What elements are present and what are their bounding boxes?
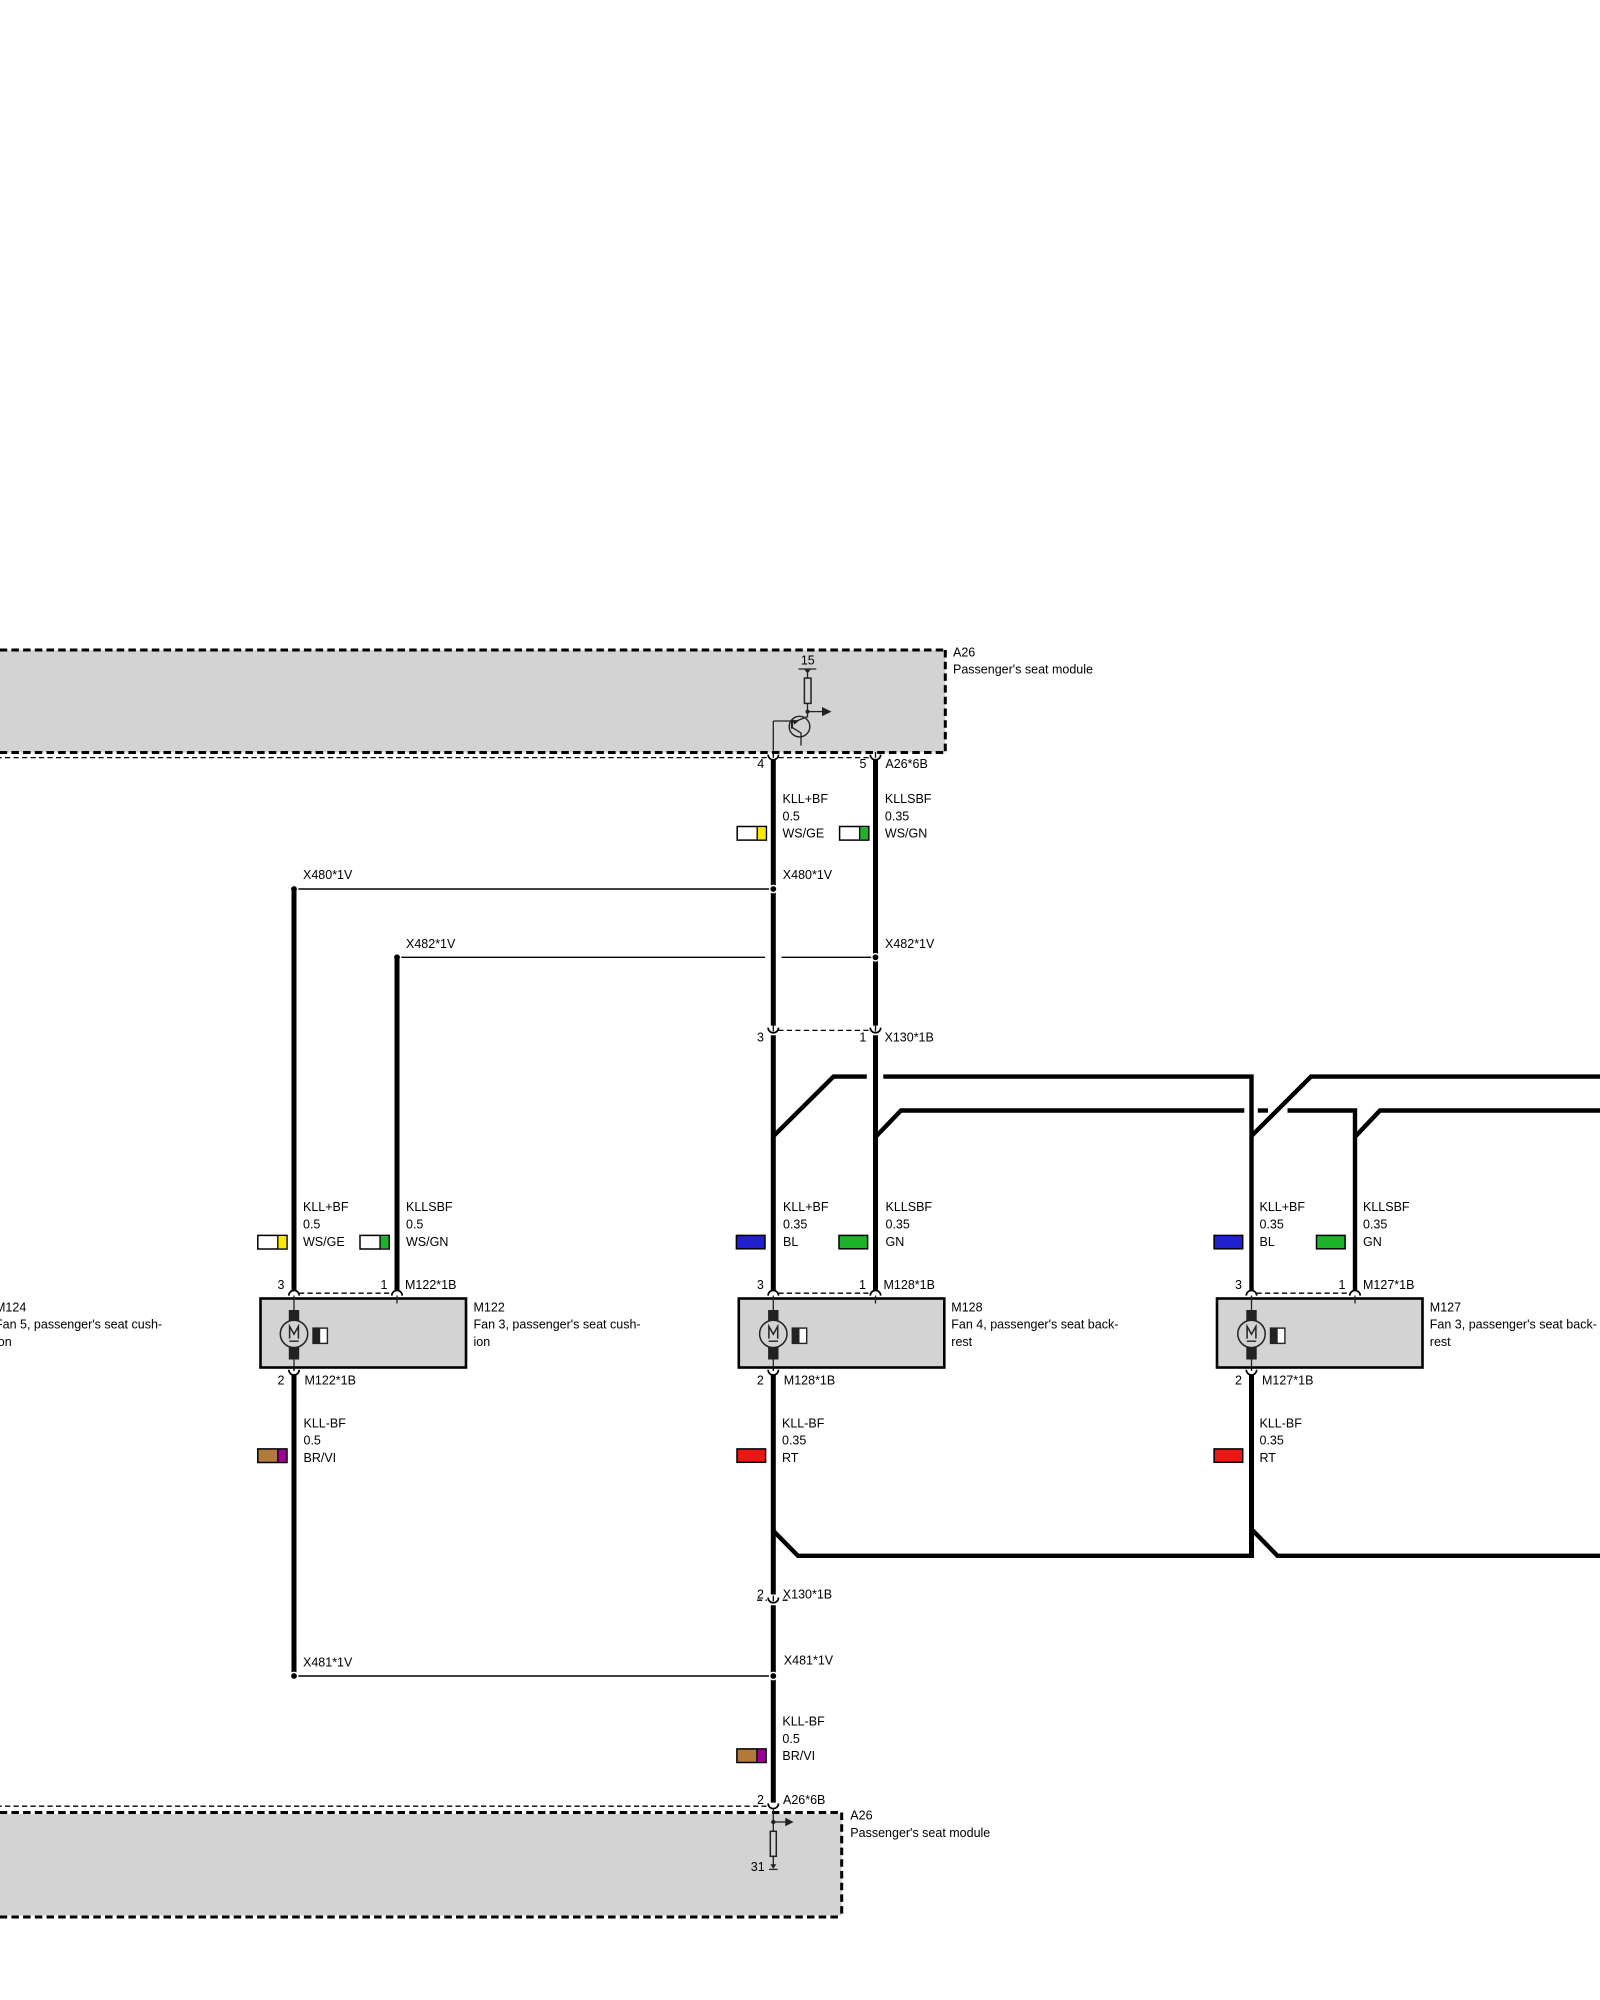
connector X130*1B pin 2 xyxy=(757,1599,790,1601)
pin 2 connector M122*1B xyxy=(293,1368,295,1371)
svg-text:M122: M122 xyxy=(474,1300,505,1314)
svg-text:2: 2 xyxy=(757,1374,764,1388)
svg-text:X480*1V: X480*1V xyxy=(303,868,353,882)
pin 1 stub inside M127 xyxy=(1354,1296,1356,1304)
svg-text:2: 2 xyxy=(757,1793,764,1807)
svg-text:ion: ion xyxy=(0,1335,12,1349)
transistor collector lead down xyxy=(792,728,801,746)
transistor base bar xyxy=(791,719,793,728)
wire resistor to collector junction xyxy=(807,703,809,717)
svg-text:WS/GE: WS/GE xyxy=(303,1235,345,1249)
svg-text:KLL+BF: KLL+BF xyxy=(303,1200,349,1214)
node ground junction xyxy=(771,1820,775,1824)
motor symbol M122 leads xyxy=(293,1296,295,1311)
svg-text:X130*1B: X130*1B xyxy=(783,1588,832,1602)
terminal 31 triangle and bar (ground) xyxy=(770,1864,776,1868)
svg-text:0.35: 0.35 xyxy=(885,809,909,823)
connector X130*1B dashed line xyxy=(778,1029,870,1031)
resistor inside A26 top xyxy=(804,678,811,703)
svg-text:2: 2 xyxy=(278,1374,285,1388)
svg-text:Fan 4, passenger's seat back-: Fan 4, passenger's seat back- xyxy=(951,1318,1118,1332)
svg-text:KLL-BF: KLL-BF xyxy=(304,1416,347,1430)
wire KLL-BF M122 pin2 down to X481 xyxy=(292,1375,297,1676)
svg-text:5: 5 xyxy=(860,757,867,771)
pin 1 connector M127*1B xyxy=(1350,1290,1360,1295)
svg-text:M122*1B: M122*1B xyxy=(405,1278,456,1292)
connector M122*1B dashed line xyxy=(299,1292,392,1294)
svg-text:0.35: 0.35 xyxy=(1260,1434,1284,1448)
pin 3 connector M122*1B xyxy=(289,1290,299,1295)
svg-text:0.35: 0.35 xyxy=(1363,1218,1387,1232)
wire bus KLLSBF horizontal and M127 pin1 corner down xyxy=(1288,1111,1356,1291)
svg-text:KLL+BF: KLL+BF xyxy=(783,1200,829,1214)
wire WS/GN branch down to M122 pin1 xyxy=(395,957,400,1291)
node X482*1V left xyxy=(393,953,402,962)
svg-text:GN: GN xyxy=(1363,1235,1382,1249)
wire pin2 stub into ground resistor xyxy=(772,1809,774,1832)
motor circle M128 xyxy=(760,1320,787,1347)
svg-text:1: 1 xyxy=(859,1031,866,1045)
svg-text:X482*1V: X482*1V xyxy=(885,937,935,951)
wire X482*1V thin link (break at KLL+BF crossing) xyxy=(397,956,765,958)
svg-text:BR/VI: BR/VI xyxy=(782,1749,815,1763)
svg-text:X481*1V: X481*1V xyxy=(784,1654,834,1668)
svg-text:WS/GN: WS/GN xyxy=(885,827,927,841)
svg-text:3: 3 xyxy=(757,1031,764,1045)
pin 1 stub inside M128 xyxy=(875,1296,877,1304)
pin 3 connector M128*1B xyxy=(768,1290,778,1295)
svg-text:M128*1B: M128*1B xyxy=(784,1374,835,1388)
pin 2 connector A26*6B (bottom) xyxy=(768,1803,778,1808)
wire KLL-BF M128 pin2 down to X130 pin2 xyxy=(771,1375,776,1596)
motor brush bottom M128 xyxy=(768,1347,778,1359)
svg-text:31: 31 xyxy=(751,1860,765,1874)
svg-text:M128: M128 xyxy=(951,1300,982,1314)
wire bus KLL+BF horizontal and M127 pin3 corner down xyxy=(883,1077,1251,1291)
svg-text:BL: BL xyxy=(783,1235,798,1249)
pin 1 stub inside M122 xyxy=(396,1296,398,1304)
wire bus KLLSBF crossing dash xyxy=(1258,1108,1268,1112)
svg-text:A26*6B: A26*6B xyxy=(885,757,927,771)
svg-text:KLL-BF: KLL-BF xyxy=(1260,1416,1303,1430)
svg-text:KLLSBF: KLLSBF xyxy=(886,1200,933,1214)
motor symbol M127 leads xyxy=(1251,1296,1253,1311)
svg-text:X482*1V: X482*1V xyxy=(406,937,456,951)
svg-text:0.35: 0.35 xyxy=(783,1218,807,1232)
transistor emitter with arrow xyxy=(792,717,807,723)
wire KLL+BF from pin4 down to X130 pin3 xyxy=(771,760,776,1026)
thermal protector M127 xyxy=(1271,1328,1285,1343)
motor brush top M128 xyxy=(768,1310,778,1321)
wire X130 pin3 down to M128 pin3 xyxy=(771,1035,776,1291)
svg-text:X481*1V: X481*1V xyxy=(303,1655,353,1669)
svg-text:KLL+BF: KLL+BF xyxy=(783,792,829,806)
svg-text:GN: GN xyxy=(886,1235,905,1249)
svg-text:3: 3 xyxy=(278,1278,285,1292)
wire X480*1V thin link xyxy=(294,888,772,890)
colour box WS/GN xyxy=(840,827,869,841)
connector X130*1B pin 3 xyxy=(772,1026,774,1032)
colour box WS/GN (M122) xyxy=(360,1235,389,1249)
wire X481*1V thin link xyxy=(294,1675,772,1677)
svg-text:4: 4 xyxy=(757,757,764,771)
svg-text:0.35: 0.35 xyxy=(1260,1218,1284,1232)
svg-text:Passenger's seat module: Passenger's seat module xyxy=(850,1826,990,1840)
svg-text:0.5: 0.5 xyxy=(782,1732,799,1746)
svg-text:WS/GN: WS/GN xyxy=(406,1235,448,1249)
pin 1 connector M128*1B xyxy=(870,1290,880,1295)
pin 2 connector M127*1B xyxy=(1251,1368,1253,1371)
connector strip A26*6B thin dashed line (bottom) xyxy=(0,1805,767,1807)
svg-text:Fan 3, passenger's seat back-: Fan 3, passenger's seat back- xyxy=(1430,1318,1597,1332)
arrow ground branch xyxy=(773,1821,786,1823)
thermal protector M128 xyxy=(792,1328,806,1343)
colour box WS/GE (M122) xyxy=(258,1235,287,1249)
resistor inside A26 bottom xyxy=(770,1831,776,1856)
pin 3 connector M127*1B xyxy=(1246,1290,1256,1295)
colour box GN (M127) xyxy=(1317,1235,1346,1248)
svg-text:X480*1V: X480*1V xyxy=(783,868,833,882)
svg-text:M127*1B: M127*1B xyxy=(1262,1374,1313,1388)
svg-text:rest: rest xyxy=(951,1335,972,1349)
svg-text:WS/GE: WS/GE xyxy=(783,827,825,841)
svg-text:KLL-BF: KLL-BF xyxy=(782,1715,825,1729)
svg-text:A26: A26 xyxy=(953,645,975,659)
svg-text:3: 3 xyxy=(1235,1278,1242,1292)
wire base lead down to pin 4 xyxy=(772,721,774,751)
svg-text:A26*6B: A26*6B xyxy=(783,1793,825,1807)
pin 1 connector M122*1B xyxy=(392,1290,402,1295)
node X480*1V right xyxy=(769,885,778,894)
wire KLL-BF M127 pin2 down to return bus xyxy=(1249,1375,1254,1558)
svg-text:KLL-BF: KLL-BF xyxy=(782,1416,825,1430)
motor symbol M128 leads xyxy=(772,1296,774,1311)
node X481*1V left xyxy=(290,1672,299,1681)
transistor T1 circle xyxy=(789,716,810,737)
wire resistor to terminal 31 xyxy=(772,1856,774,1864)
wire bus KLL+BF diagonal continuation to right fans xyxy=(1252,1077,1600,1136)
svg-text:M127: M127 xyxy=(1430,1300,1461,1314)
wire return bus diagonal continuation to right fans xyxy=(1252,1530,1600,1556)
svg-text:2: 2 xyxy=(757,1588,764,1602)
svg-text:ion: ion xyxy=(474,1335,491,1349)
pin 2 connector M128*1B xyxy=(772,1368,774,1371)
fan motor M127 box xyxy=(1217,1299,1423,1368)
svg-text:Fan 3, passenger's seat cush-: Fan 3, passenger's seat cush- xyxy=(474,1318,641,1332)
svg-text:0.35: 0.35 xyxy=(782,1434,806,1448)
motor circle M127 xyxy=(1238,1320,1265,1347)
svg-text:RT: RT xyxy=(1260,1451,1277,1465)
motor M letter M122 xyxy=(290,1326,299,1338)
wire bus KLLSBF diagonal continuation to right fans xyxy=(1356,1111,1600,1137)
motor M letter M128 xyxy=(769,1326,778,1338)
colour box GN (M128) xyxy=(839,1235,868,1248)
pin 4 connector A26*6B xyxy=(768,754,778,760)
wire WS/GE branch down to M122 pin3 xyxy=(292,889,297,1291)
svg-text:BR/VI: BR/VI xyxy=(304,1451,337,1465)
wire KLLSBF from pin5 down to X130 pin1 xyxy=(873,760,878,1026)
wire bus KLLSBF diagonal from M128 branch xyxy=(875,1111,1245,1139)
svg-text:0.5: 0.5 xyxy=(304,1434,321,1448)
colour box BR/VI (return) xyxy=(737,1749,766,1763)
colour box BR/VI (M122) xyxy=(258,1449,287,1463)
fan motor M128 box xyxy=(739,1299,945,1368)
svg-text:0.5: 0.5 xyxy=(783,809,800,823)
svg-text:2: 2 xyxy=(1235,1374,1242,1388)
motor brush top M122 xyxy=(289,1310,299,1321)
terminal 15 bar and triangle xyxy=(798,668,816,670)
node collector junction xyxy=(806,710,810,714)
svg-text:A26: A26 xyxy=(850,1809,872,1823)
svg-text:15: 15 xyxy=(801,654,815,668)
module A26 (bottom), passenger seat module box xyxy=(0,1814,842,1916)
svg-text:0.35: 0.35 xyxy=(886,1218,910,1232)
motor brush bottom M122 xyxy=(289,1347,299,1359)
wire bus KLL+BF diagonal from M128 branch xyxy=(772,1077,867,1138)
wire X130 pin1 down to M128 pin1 xyxy=(873,1035,878,1291)
wire terminal15 to resistor xyxy=(807,670,809,679)
svg-text:rest: rest xyxy=(1430,1335,1451,1349)
svg-text:3: 3 xyxy=(757,1278,764,1292)
module A26 (top), passenger seat module box xyxy=(0,650,945,753)
svg-text:KLLSBF: KLLSBF xyxy=(406,1200,453,1214)
arrow output (KLL+BF drive) xyxy=(808,711,824,713)
svg-text:RT: RT xyxy=(782,1451,799,1465)
connector X130*1B pin 1 xyxy=(875,1026,877,1032)
connector strip A26*6B thin dashed line xyxy=(0,757,880,759)
svg-text:1: 1 xyxy=(859,1278,866,1292)
node X480*1V left xyxy=(290,885,299,894)
motor M letter M127 xyxy=(1247,1326,1256,1338)
colour box RT (M128) xyxy=(737,1449,766,1462)
svg-text:M124: M124 xyxy=(0,1300,26,1314)
svg-text:M128*1B: M128*1B xyxy=(884,1278,935,1292)
svg-text:KLLSBF: KLLSBF xyxy=(1363,1200,1410,1214)
svg-text:0.5: 0.5 xyxy=(406,1218,423,1232)
motor brush top M127 xyxy=(1246,1310,1256,1321)
motor circle M122 xyxy=(280,1320,307,1347)
svg-text:KLL+BF: KLL+BF xyxy=(1260,1200,1306,1214)
wire X130 pin2 down to A26 pin2 xyxy=(771,1605,776,1802)
svg-text:KLLSBF: KLLSBF xyxy=(885,792,932,806)
svg-text:1: 1 xyxy=(381,1278,388,1292)
svg-text:Passenger's seat module: Passenger's seat module xyxy=(953,663,1093,677)
node X481*1V right xyxy=(769,1672,778,1681)
connector M127*1B dashed line xyxy=(1257,1292,1351,1294)
svg-text:0.5: 0.5 xyxy=(303,1218,320,1232)
svg-text:M122*1B: M122*1B xyxy=(305,1374,356,1388)
svg-text:X130*1B: X130*1B xyxy=(885,1031,934,1045)
fan motor M122 box xyxy=(261,1299,467,1368)
svg-text:Fan 5, passenger's seat cush-: Fan 5, passenger's seat cush- xyxy=(0,1318,162,1332)
transistor base lead xyxy=(773,720,792,722)
pin 5 connector A26*6B xyxy=(870,754,880,760)
colour box RT (M127) xyxy=(1214,1449,1243,1462)
colour box BL (M128) xyxy=(736,1235,765,1248)
wire return bus diagonal from M128 and horizontal to M127 xyxy=(774,1531,1254,1555)
motor brush bottom M127 xyxy=(1246,1347,1256,1359)
svg-text:1: 1 xyxy=(1339,1278,1346,1292)
node X482*1V right xyxy=(871,953,880,962)
connector M128*1B dashed line xyxy=(778,1292,870,1294)
svg-text:BL: BL xyxy=(1260,1235,1275,1249)
colour box BL (M127) xyxy=(1214,1235,1243,1248)
colour box WS/GE xyxy=(737,827,766,841)
thermal protector M122 xyxy=(313,1328,327,1343)
svg-text:M127*1B: M127*1B xyxy=(1363,1278,1414,1292)
